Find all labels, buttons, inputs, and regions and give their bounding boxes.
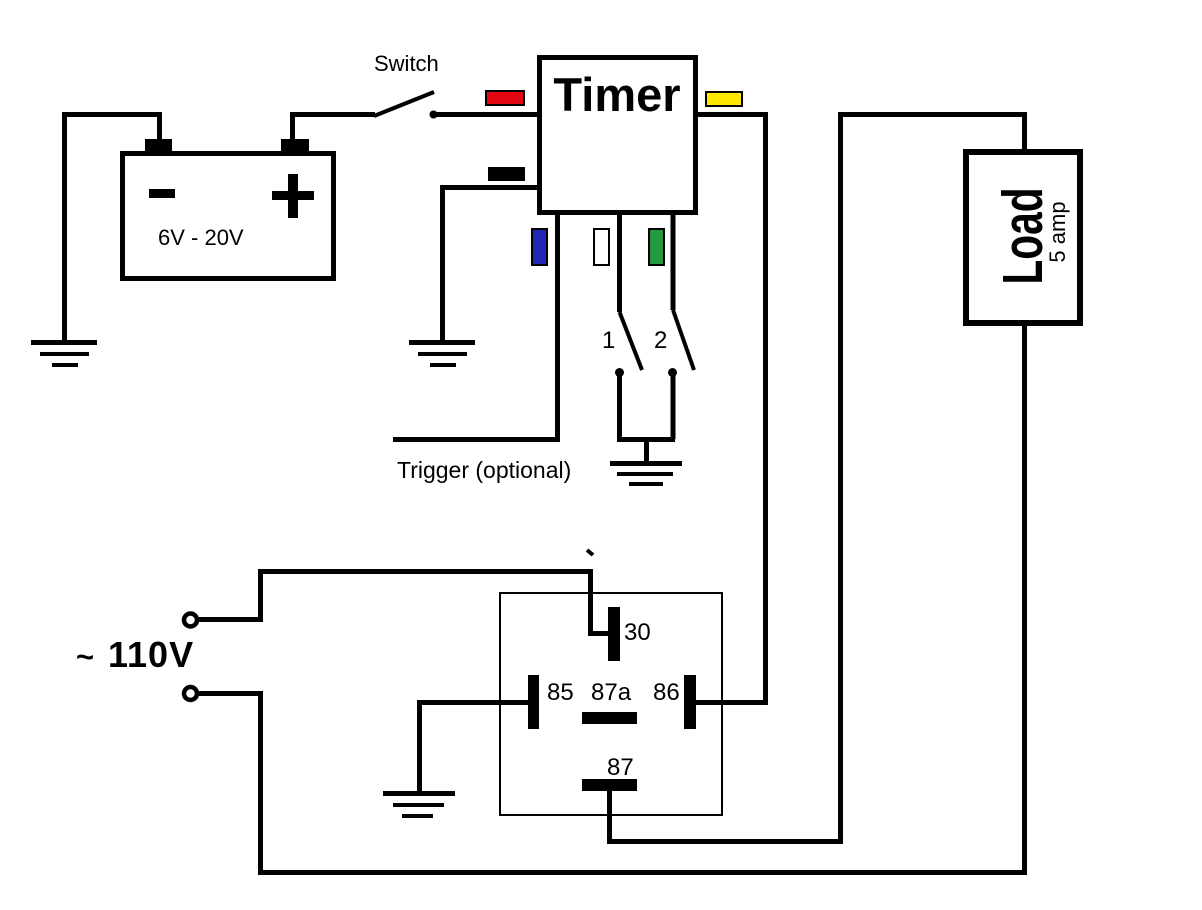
svg-text:Switch: Switch xyxy=(374,51,439,76)
svg-text:87: 87 xyxy=(607,754,634,781)
svg-text:110V: 110V xyxy=(108,634,194,675)
svg-text:6V - 20V: 6V - 20V xyxy=(158,225,244,250)
svg-text:2: 2 xyxy=(654,327,667,354)
svg-text:87a: 87a xyxy=(591,679,632,706)
svg-text:86: 86 xyxy=(653,679,680,706)
svg-text:Trigger (optional): Trigger (optional) xyxy=(397,457,571,483)
svg-text:Timer: Timer xyxy=(553,68,680,121)
svg-text:5 amp: 5 amp xyxy=(1045,201,1070,262)
svg-text:30: 30 xyxy=(624,619,651,646)
svg-text:1: 1 xyxy=(602,327,615,354)
svg-text:~: ~ xyxy=(76,639,94,674)
svg-text:85: 85 xyxy=(547,679,574,706)
